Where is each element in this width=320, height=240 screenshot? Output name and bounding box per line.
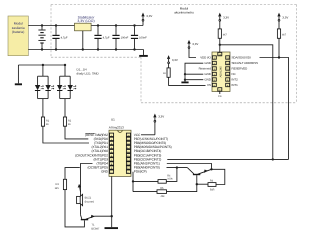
dashed accelerometer-module box left edge <box>140 57 142 103</box>
junction C1 bottom <box>55 48 57 50</box>
junction LED rail pair2 <box>64 64 66 66</box>
wire R2 to MCU PD0 <box>65 126 88 139</box>
resistor R4 100k <box>133 168 177 184</box>
capacitor C4 <box>131 26 138 50</box>
label R3 <box>55 183 60 190</box>
label R4 <box>167 174 173 180</box>
capacitor C2 <box>94 26 101 50</box>
svg-text:GND: GND <box>204 61 210 65</box>
junction LED rail pair1 <box>42 64 44 66</box>
svg-text:100nF: 100nF <box>139 37 147 40</box>
junction GND pin4 <box>184 73 186 75</box>
junction battery top <box>41 24 43 26</box>
label accelerometer module <box>174 7 194 15</box>
svg-text:3,3V (LDO): 3,3V (LDO) <box>77 19 94 23</box>
wire SDA pull-up <box>278 21 280 57</box>
svg-text:(bateria): (bateria) <box>12 30 24 34</box>
wire VDD I/O <box>189 49 196 58</box>
svg-text:4,7µF: 4,7µF <box>61 37 68 40</box>
LED D3 D4 parallel pair <box>57 65 76 117</box>
svg-text:4k7: 4k7 <box>223 33 228 36</box>
wire SCL pull-up <box>219 21 221 52</box>
buzzer BUZ1 <box>77 194 83 205</box>
power arrow 3,3V at VDD I/O <box>188 41 190 48</box>
svg-text:4,7µF: 4,7µF <box>103 37 110 40</box>
svg-text:U1: U1 <box>111 118 115 122</box>
svg-text:SDA/SDIO/SDI: SDA/SDIO/SDI <box>232 55 251 59</box>
svg-text:SDO/ALT ADDRESS: SDO/ALT ADDRESS <box>232 61 258 65</box>
junction SCL node <box>219 44 221 46</box>
wire PD4 to buzzer <box>81 164 93 197</box>
overline RESET <box>85 132 94 134</box>
U2 right pin labels <box>232 55 258 87</box>
svg-text:CS: CS <box>218 95 222 98</box>
ground symbol power rail <box>139 50 148 56</box>
wire buzzer to T1 collector <box>80 204 82 215</box>
svg-text:INT1: INT1 <box>232 83 239 87</box>
wire T1 emitter to GND column <box>95 215 112 217</box>
svg-text:INT2: INT2 <box>232 77 239 81</box>
resistor SDA pull-up 4k7 <box>277 29 280 38</box>
wire PD5 to R3 <box>65 168 80 180</box>
svg-text:VS: VS <box>207 83 211 87</box>
wire GND pins bus <box>185 63 203 81</box>
battery module label <box>12 22 25 34</box>
svg-text:3,3V: 3,3V <box>282 15 288 19</box>
wire SDA to right bus <box>260 58 289 160</box>
label BUZ1 <box>85 197 95 204</box>
power arrow 3,3V at SCL pull-up <box>219 14 221 21</box>
svg-text:BUZ1: BUZ1 <box>85 197 92 200</box>
junction emitter gnd column <box>111 215 113 217</box>
voltage regulator U3 LDO <box>75 23 92 31</box>
junction SDA node <box>278 56 280 58</box>
ground symbol LED rail <box>15 83 22 85</box>
svg-text:Reserved: Reserved <box>199 66 212 70</box>
microcontroller U1 ATtiny2313 body <box>109 130 131 176</box>
svg-text:100k: 100k <box>167 177 173 180</box>
ground symbol U2 <box>181 81 188 83</box>
svg-text:3,3V: 3,3V <box>192 42 198 46</box>
resistor R5 49k <box>133 184 197 193</box>
junction GND pin5 <box>184 79 186 81</box>
resistor R6 56R <box>197 169 225 186</box>
svg-text:100nF: 100nF <box>121 37 129 40</box>
resistor R1 <box>41 117 44 126</box>
wire SCL to right bus <box>220 45 273 160</box>
label D1...D4 <box>77 67 100 75</box>
dashed accelerometer-module box bottom edge <box>141 102 297 104</box>
wire PB0 row to T2 collector <box>167 167 188 169</box>
junction PD6 column R4 tap <box>132 180 134 182</box>
dashed power-module box bottom edge <box>51 56 141 58</box>
junction C2 bottom <box>97 48 99 50</box>
svg-text:GND: GND <box>204 72 210 76</box>
arrow piezo marking <box>78 184 81 192</box>
svg-text:(buzzer): (buzzer) <box>85 200 95 203</box>
accelerometer IC U2 body <box>212 52 230 92</box>
wire PD6 branch column <box>132 172 134 192</box>
ground symbol MCU <box>105 227 119 229</box>
junction PB0 and R4 <box>176 166 178 168</box>
svg-text:ADXL345: ADXL345 <box>219 66 222 78</box>
U2 left pin boxes <box>212 56 216 88</box>
svg-text:RESERVED: RESERVED <box>232 66 248 70</box>
U1 right pin labels <box>134 133 172 174</box>
power arrow 3,3V at regulator output <box>142 14 144 26</box>
U2 left pin labels <box>199 55 212 87</box>
svg-text:GND: GND <box>101 170 109 174</box>
junction C4 bottom <box>133 48 135 50</box>
U1 right pin boxes with numbers <box>126 133 130 174</box>
wire top supply rail <box>28 25 143 27</box>
U2 right pin boxes <box>226 56 230 88</box>
junction T2 emitter node <box>210 168 212 170</box>
svg-text:3,3V: 3,3V <box>158 114 164 118</box>
junction T2 base node <box>196 183 198 185</box>
label T1 <box>91 224 99 231</box>
label regulator <box>77 16 95 24</box>
wire R1 to MCU PD1 <box>43 126 89 143</box>
svg-text:GND: GND <box>204 77 210 81</box>
capacitor C1 <box>52 26 59 50</box>
label R5 <box>160 187 165 198</box>
transistor T1 <box>81 215 95 220</box>
wire PB2 row to right bus <box>167 158 288 160</box>
U1 left pin boxes with numbers <box>110 133 114 174</box>
svg-text:R2: R2 <box>68 119 72 122</box>
junction regulator ground <box>82 48 84 50</box>
U1 left pin labels <box>75 133 109 174</box>
power arrow 3,3V at VS <box>167 56 169 63</box>
power arrow 3,3V at VCC <box>154 115 156 135</box>
svg-text:VDD I/O: VDD I/O <box>200 55 211 59</box>
LED D1 D2 parallel pair <box>35 65 54 117</box>
label R6 <box>210 180 215 192</box>
svg-text:3,3V: 3,3V <box>223 15 229 19</box>
svg-text:4k7: 4k7 <box>282 33 287 36</box>
svg-text:56R: 56R <box>210 189 215 192</box>
wire LED common rail <box>18 64 65 66</box>
svg-text:PD6(ICP): PD6(ICP) <box>134 170 147 174</box>
svg-text:R1: R1 <box>46 119 50 122</box>
wire MCU GND column <box>111 176 113 227</box>
wire VCC to 3,3V arrow <box>141 134 155 136</box>
junction C4 top <box>133 24 135 26</box>
wire regulator ground pin <box>82 31 84 50</box>
svg-text:0R: 0R <box>163 72 166 75</box>
label R1 <box>46 119 50 126</box>
svg-text:BC847: BC847 <box>91 228 99 231</box>
wire R3 to T1 base <box>65 190 84 227</box>
wire bottom ground rail <box>28 49 143 51</box>
junction C3 bottom <box>115 48 117 50</box>
junction C3 top <box>115 24 117 26</box>
svg-text:R3: R3 <box>55 183 59 186</box>
wire LED rail drop to ground <box>17 65 19 83</box>
power arrow 3,3V at SDA pull-up <box>278 14 280 21</box>
U2 bottom pin box 7 <box>218 88 222 92</box>
svg-text:ATtiny2313: ATtiny2313 <box>109 125 124 129</box>
junction C1 top <box>55 24 57 26</box>
wire PB1 row to T2 emitter <box>167 164 212 170</box>
resistor VS feed <box>167 68 170 77</box>
capacitor C3 <box>112 26 119 50</box>
resistor R3 <box>63 179 66 189</box>
wire VS pin <box>169 64 206 86</box>
battery BT1 <box>38 26 45 50</box>
junction battery bottom <box>41 48 43 50</box>
resistor SCL pull-up 4k7 <box>218 29 221 38</box>
wire CS stub <box>219 92 221 95</box>
label R2 <box>68 119 72 126</box>
dashed accelerometer-module box right edge <box>296 5 298 103</box>
svg-text:diody LED, SMD: diody LED, SMD <box>77 71 100 75</box>
junction SCL bus on PB2 wire <box>272 158 274 160</box>
resistor R2 <box>63 117 66 126</box>
transistor T2 <box>187 168 211 185</box>
svg-text:3,3V: 3,3V <box>146 14 152 18</box>
svg-text:akcelerometru: akcelerometru <box>174 11 194 15</box>
dashed power-module box left edge <box>50 5 52 58</box>
svg-text:1k5: 1k5 <box>55 187 60 190</box>
U2 top pin box 14 <box>218 52 222 56</box>
dashed power-module box top edge <box>51 4 297 6</box>
battery module block <box>8 16 28 56</box>
junction C2 top <box>97 24 99 26</box>
svg-text:3,3V: 3,3V <box>172 58 178 62</box>
